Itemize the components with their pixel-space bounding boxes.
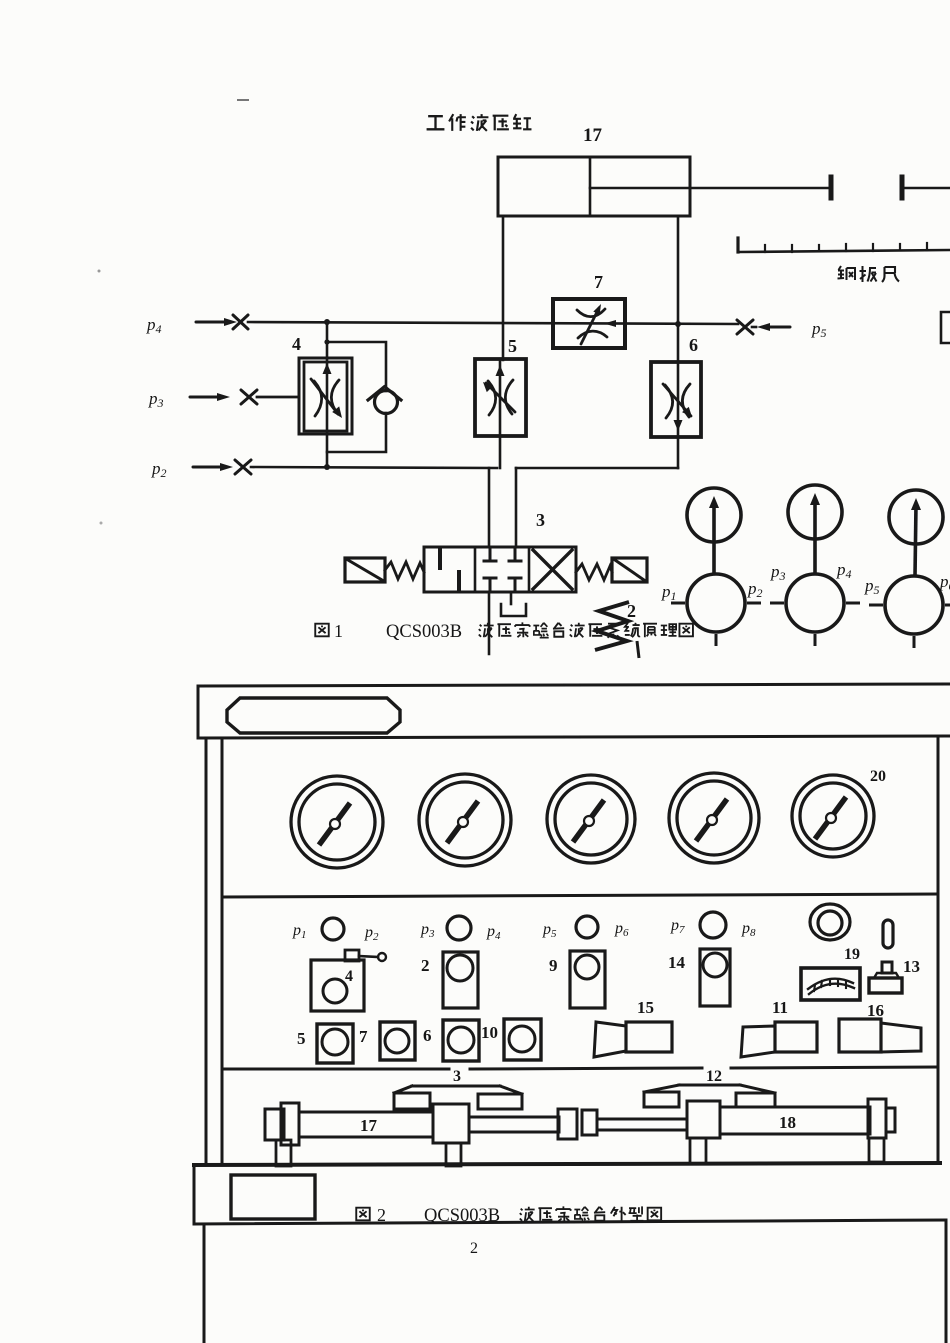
svg-text:p5: p5 (811, 319, 827, 340)
svg-text:1: 1 (334, 621, 343, 641)
svg-text:p2: p2 (364, 924, 379, 943)
svg-text:5: 5 (297, 1029, 306, 1048)
svg-text:QCS003B: QCS003B (386, 622, 462, 642)
svg-text:10: 10 (481, 1023, 498, 1042)
svg-text:p4: p4 (146, 315, 162, 336)
svg-text:3: 3 (453, 1068, 461, 1085)
svg-text:4: 4 (345, 968, 353, 985)
svg-text:p4: p4 (836, 560, 852, 581)
svg-text:p4: p4 (486, 923, 501, 942)
svg-text:2: 2 (470, 1240, 478, 1257)
svg-text:p3: p3 (148, 389, 164, 410)
svg-text:5: 5 (508, 336, 517, 356)
svg-text:2: 2 (627, 601, 636, 621)
svg-text:16: 16 (867, 1001, 884, 1020)
svg-text:2: 2 (421, 956, 430, 975)
svg-text:p2: p2 (747, 579, 763, 600)
svg-text:14: 14 (668, 953, 686, 972)
svg-text:p5: p5 (864, 576, 880, 597)
svg-text:7: 7 (359, 1027, 368, 1046)
svg-text:6: 6 (689, 335, 698, 355)
svg-text:18: 18 (779, 1113, 796, 1132)
svg-text:QCS003B: QCS003B (424, 1206, 500, 1226)
svg-text:15: 15 (637, 998, 654, 1017)
svg-text:p8: p8 (741, 920, 756, 939)
svg-text:7: 7 (594, 272, 603, 292)
svg-text:p3: p3 (420, 921, 435, 940)
svg-text:6: 6 (423, 1026, 432, 1045)
svg-text:p1: p1 (661, 582, 677, 603)
svg-text:p6: p6 (939, 572, 950, 593)
svg-text:p2: p2 (151, 459, 167, 480)
svg-text:17: 17 (360, 1116, 378, 1135)
svg-text:13: 13 (903, 957, 920, 976)
svg-text:p3: p3 (770, 562, 786, 583)
svg-text:p5: p5 (542, 921, 557, 940)
svg-text:p6: p6 (614, 920, 629, 939)
svg-text:p7: p7 (670, 917, 685, 936)
svg-text:p1: p1 (292, 922, 307, 941)
svg-text:11: 11 (772, 998, 788, 1017)
svg-text:3: 3 (536, 510, 545, 530)
svg-text:20: 20 (870, 768, 886, 785)
svg-text:2: 2 (377, 1205, 386, 1225)
svg-text:9: 9 (549, 956, 558, 975)
svg-text:19: 19 (844, 946, 860, 963)
svg-text:17: 17 (583, 125, 603, 146)
svg-text:12: 12 (706, 1068, 722, 1085)
svg-text:4: 4 (292, 334, 301, 354)
